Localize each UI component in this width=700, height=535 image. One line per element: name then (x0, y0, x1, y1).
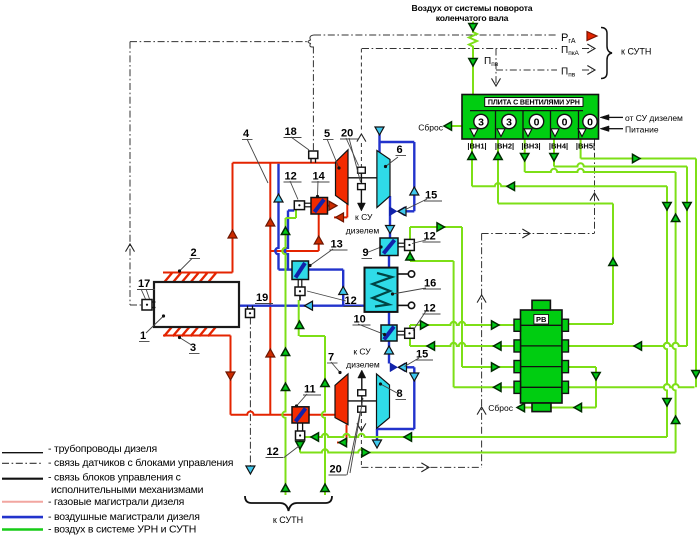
wire sensor dash-dot top horizontal from left loop (130, 41, 309, 43)
wire air blue to valve 15 upper (403, 210, 414, 212)
wire gas red horizontal y251 (270, 250, 318, 252)
connector 12 of valve 14 (294, 201, 304, 210)
svg-text:0: 0 (587, 116, 593, 128)
svg-text:4: 4 (243, 128, 250, 140)
bowtie valve 15 upper (390, 207, 398, 216)
wire green top air inlet with break (469, 22, 477, 95)
wire gas red valve14 to turbine 5 (328, 205, 337, 207)
bowtie valve 15 lower (390, 363, 398, 372)
svg-text:8: 8 (397, 388, 403, 400)
svg-text:|ВН2|: |ВН2| (495, 142, 514, 151)
svg-text:12: 12 (285, 171, 297, 183)
svg-text:|ВН4|: |ВН4| (549, 142, 568, 151)
turbine 5 (336, 150, 349, 205)
wire green vertical x687 VN4 to RV (686, 167, 688, 347)
wire sensor dashed from upper shaft connectors (360, 49, 362, 132)
connector 12 of valve 13 (295, 287, 305, 296)
wire sensor P_pv horizontal (496, 69, 557, 71)
wire gas red turbine 5 lower return (346, 203, 348, 217)
compressor 6 (377, 151, 390, 208)
wire sensor dash-dot to connector 17 (130, 304, 142, 306)
air distributor RV block (521, 310, 563, 403)
label ot SU dizelem (600, 115, 609, 121)
legend line 4 gazovye (2, 501, 43, 503)
plate with URN valves block (462, 95, 599, 140)
svg-text:3: 3 (478, 116, 484, 128)
wire air blue valve13 right to main (308, 268, 343, 270)
connector 12 of valve 11 (296, 431, 305, 440)
svg-text:- трубопроводы дизеля: - трубопроводы дизеля (48, 443, 157, 455)
connector 18 sensor (309, 151, 318, 159)
svg-text:3: 3 (190, 342, 196, 354)
wire green vertical x453 (453, 261, 455, 387)
svg-text:5: 5 (324, 128, 330, 140)
valve 9 (380, 238, 398, 256)
svg-text:- воздушные магистрали дизеля: - воздушные магистрали дизеля (48, 511, 200, 523)
svg-text:0: 0 (562, 116, 568, 128)
wire sensor P_pkA horizontal (362, 48, 557, 50)
svg-text:исполнительными механизмами: исполнительными механизмами (51, 484, 204, 496)
wire green VN1 horizontal y186 (472, 183, 667, 186)
manifold 2 red line with fins (163, 272, 233, 274)
wire green VN1 drop (471, 139, 473, 186)
wire green VN3 horizontal y172 (525, 169, 676, 172)
svg-text:15: 15 (425, 190, 437, 202)
wire air blue y429 to compressor 8 (377, 428, 415, 430)
wire air blue vertical x278 (275, 164, 278, 270)
svg-text:ПЛИТА С ВЕНТИЛЯМИ УРН: ПЛИТА С ВЕНТИЛЯМИ УРН (488, 99, 580, 107)
wire air blue compressor 8 bottom stub (376, 429, 378, 441)
svg-text:Воздух от системы поворота: Воздух от системы поворота (412, 3, 533, 13)
svg-text:18: 18 (285, 126, 297, 138)
svg-text:9: 9 (363, 247, 369, 259)
wire green RV right tab4 y387 (569, 384, 695, 387)
svg-text:3: 3 (506, 116, 512, 128)
svg-text:14: 14 (313, 171, 326, 183)
wire sensor dashed from lower shaft connectors (360, 412, 362, 467)
wire air blue vertical x414 upper (413, 142, 415, 211)
wire green SUTN line 1 y437 (305, 434, 667, 437)
heat exchanger 16 (365, 268, 398, 312)
wire air blue short y269 left of valve 13 (279, 268, 293, 270)
valve 10 (381, 325, 397, 341)
svg-text:дизелем: дизелем (346, 360, 380, 370)
plate outlet triangles (470, 129, 478, 137)
wire air blue vertical x288 (285, 211, 288, 270)
wire sensor P_pv vertical into plate (495, 49, 497, 85)
curly brace to SUTN (601, 28, 612, 79)
wire gas red vertical from manifold 2 (232, 163, 234, 273)
wire green valve13 control line (298, 300, 300, 336)
wire green VN4 drop (553, 139, 555, 167)
svg-text:- газовые магистрали дизеля: - газовые магистрали дизеля (48, 496, 184, 508)
wire green valve9 control upper y227 (410, 226, 462, 228)
valve 11 (292, 407, 309, 423)
wire green vertical x667 VN1 to SUTN1 (664, 186, 667, 437)
svg-text:к СУТН: к СУТН (621, 47, 651, 57)
turbine 7 (335, 374, 348, 425)
wire air blue valve10 down (388, 341, 390, 364)
shaft upper turbo pair (348, 177, 377, 179)
engine block 1 (154, 282, 239, 327)
wire sensor vertical x481 (481, 234, 483, 468)
wire green RV bottom sbros right (551, 407, 596, 409)
svg-text:12: 12 (424, 231, 436, 243)
wire gas red turbine 7 outlet (346, 425, 348, 443)
wire green vertical x696 VN5 to RV tab4 (695, 159, 697, 388)
shaft connectors 20 lower (358, 390, 366, 396)
svg-text:к СУТН: к СУТН (273, 515, 303, 525)
wire green VN2 drop (497, 139, 499, 204)
svg-text:РВ: РВ (536, 315, 547, 324)
legend line 2 svyaz datchikov (2, 462, 43, 464)
label Pitanie (600, 126, 609, 132)
svg-text:от СУ дизелем: от СУ дизелем (625, 113, 683, 123)
svg-text:19: 19 (256, 292, 268, 304)
arrow to SU dizelem lower (361, 377, 363, 390)
wire green VN3 drop (524, 139, 526, 172)
wire green valve14 control line (295, 210, 297, 218)
wire sensor riser from connector 18 (312, 47, 314, 152)
svg-text:Сброс: Сброс (488, 403, 513, 413)
wire air blue compressor 6 intake (378, 129, 380, 153)
svg-text:|ВН1|: |ВН1| (467, 142, 486, 151)
svg-text:6: 6 (397, 144, 403, 156)
wire green sbros from plate left (446, 125, 462, 127)
svg-text:13: 13 (331, 239, 343, 251)
wire green x596 down to sbros line (595, 367, 597, 408)
connector 17 sensor (142, 300, 152, 311)
wire green valve9 connector stubs (409, 227, 411, 239)
svg-text:Питание: Питание (625, 124, 659, 134)
svg-text:10: 10 (354, 314, 366, 326)
manifold 3 red line with fins (163, 335, 231, 337)
wire green RV left tab3 y367 (462, 366, 514, 368)
legend line 3 svyaz blokov (2, 478, 43, 480)
svg-text:Сброс: Сброс (418, 122, 443, 132)
wire gas red vertical from manifold 3 down (230, 336, 232, 415)
wire green RV left tab4 y387 (454, 386, 514, 388)
wire green VN2 horizontal y203 (498, 203, 613, 205)
wire green valve11 connector down stub (299, 440, 301, 453)
wire green valve10 connector stubs (409, 325, 411, 329)
shaft connectors 20 upper (358, 167, 366, 173)
wire gas red valve14 stub down (318, 214, 320, 251)
shaft lower turbo pair (348, 400, 377, 402)
wire sensor dash-dot P_gA horizontal (314, 34, 557, 36)
wire sensor from plate bottom vertical (594, 139, 596, 234)
arrow to SU dizelem upper (360, 190, 362, 204)
wire sensor horizontal y467 (361, 466, 481, 468)
legend line 5 vozdushnye (2, 516, 43, 519)
wire green RV right tab3 y367 (569, 366, 597, 368)
svg-text:дизелем: дизелем (346, 226, 380, 236)
svg-text:к СУ: к СУ (353, 347, 371, 357)
legend line 1 truboprovody (2, 452, 43, 454)
wire gas red horizontal to turbine 7 (231, 412, 336, 415)
svg-text:2: 2 (191, 247, 197, 259)
valve 13 (292, 261, 309, 280)
wire green RV right tab1 y324 (569, 323, 614, 325)
heat exchanger 16 stubs with circles (398, 273, 409, 275)
wire green valve9 control lower y261 (410, 260, 454, 262)
wire green RV left tab1 feed y325 (410, 322, 514, 325)
svg-text:|ВН3|: |ВН3| (521, 142, 540, 151)
svg-text:коленчатого вала: коленчатого вала (436, 13, 509, 23)
svg-text:к СУ: к СУ (355, 212, 373, 222)
wire air blue valve9 to HE16 (388, 256, 390, 268)
wire green vertical x675 VN3 to SUTN2 (672, 172, 675, 453)
wire green SUTN line 2 y452 (300, 449, 676, 452)
connector 12 of valve 9 (405, 239, 415, 250)
brace k SUTN bottom (245, 496, 332, 511)
connector 12 of valve 10 (405, 328, 415, 338)
wire air blue lower bowtie to x414 (404, 366, 414, 368)
svg-text:20: 20 (330, 464, 342, 476)
wire gas red top horizontal (233, 162, 336, 164)
wire green RV bottom sbros left (517, 407, 532, 409)
wire sensor dash-dot left loop vertical (129, 42, 131, 305)
svg-text:0: 0 (534, 116, 540, 128)
wire green RV right tab2 y346 (569, 343, 688, 346)
svg-text:- связь блоков управления с: - связь блоков управления с (48, 472, 181, 484)
connector 19 sensor (246, 309, 255, 318)
wire green vertical x613 VN2 to RV (612, 204, 614, 325)
wire green VN5 horizontal y158 (581, 158, 696, 160)
svg-text:7: 7 (328, 352, 334, 364)
wire green RV left tab2 y346 (410, 343, 514, 346)
plate valve indicator circles (474, 114, 488, 128)
wire air blue connector14 link (288, 209, 294, 211)
wire sensor dash-dot from connector 19 down (249, 318, 251, 467)
svg-text:12: 12 (345, 295, 357, 307)
wire air blue HE16 to valve10 (388, 312, 390, 325)
svg-text:1: 1 (140, 330, 146, 342)
wire sensor horizontal y233 (482, 233, 595, 235)
svg-text:|ВН5|: |ВН5| (576, 142, 595, 151)
svg-text:12: 12 (267, 446, 279, 458)
junction pigtail (308, 35, 314, 47)
svg-text:20: 20 (341, 128, 353, 140)
valve 14 (311, 198, 328, 215)
svg-text:17: 17 (138, 278, 150, 290)
wire green VN4 horizontal y166 (554, 163, 687, 166)
legend line 6 vozduh URN SUTN (2, 528, 43, 531)
wire air blue engine line y306 (239, 305, 365, 307)
wire air blue vertical x414 lower (413, 367, 415, 429)
wire gas red main vertical x270 (269, 163, 271, 415)
compressor 8 (377, 374, 390, 429)
wire green VN5 drop (580, 139, 582, 159)
svg-text:11: 11 (304, 384, 316, 396)
wire green vertical x462 (461, 227, 463, 367)
wire air blue compressor6 to valve 9 (389, 196, 391, 238)
svg-text:- связь датчиков с блоками упр: - связь датчиков с блоками управления (48, 457, 233, 469)
wire air blue y142 top (380, 141, 415, 143)
svg-text:- воздух в системе УРН и СУТН: - воздух в системе УРН и СУТН (48, 524, 196, 535)
